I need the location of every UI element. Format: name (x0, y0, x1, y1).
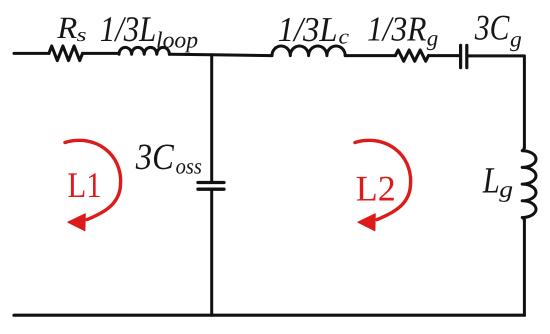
svg-text:1/3L: 1/3L (100, 9, 157, 49)
loop arrow L2 (red arc) (355, 140, 411, 230)
wire between 1/3R_g and 3C_g (429, 54, 460, 57)
wire between 1/3L_c and 1/3R_g (345, 54, 395, 57)
svg-text:s: s (77, 25, 87, 46)
wire middle vertical lower (210, 191, 213, 315)
wire between R_s and 1/3L_loop (83, 52, 120, 55)
svg-text:oss: oss (176, 154, 202, 179)
svg-text:3C: 3C (474, 8, 510, 48)
svg-text:R: R (56, 10, 77, 45)
svg-text:L2: L2 (356, 169, 396, 209)
svg-text:1/3L: 1/3L (278, 10, 338, 49)
arrowhead of L1 (68, 214, 85, 231)
svg-text:g: g (427, 26, 439, 51)
inductor L_g (522, 147, 536, 220)
resistor R_s (49, 46, 83, 61)
svg-text:loop: loop (156, 28, 198, 53)
svg-text:1/3R: 1/3R (367, 9, 427, 48)
loop arrow L1 (red arc) (65, 140, 121, 230)
inductor 1/3L_c (272, 46, 345, 56)
svg-text:3C: 3C (135, 137, 175, 178)
wire right vertical below L_g (523, 220, 526, 315)
svg-text:g: g (499, 177, 513, 202)
wire from 1/3L_loop across node to 1/3L_c (169, 54, 272, 55)
wire top-left segment (14, 52, 49, 55)
wire middle vertical upper (node) (210, 55, 213, 181)
wire bottom horizontal (14, 314, 524, 317)
resistor 1/3R_g (395, 50, 428, 61)
svg-text:c: c (339, 25, 350, 49)
inductor 1/3L_loop (119, 47, 169, 54)
capacitor 3C_oss plates (198, 183, 224, 190)
svg-text:g: g (510, 27, 522, 52)
arrowhead of L2 (358, 214, 375, 231)
svg-text:L: L (482, 161, 500, 202)
capacitor 3C_g plates (461, 45, 467, 67)
svg-text:L1: L1 (68, 165, 102, 205)
wire from 3C_g to top-right corner down to L_g (468, 56, 524, 147)
